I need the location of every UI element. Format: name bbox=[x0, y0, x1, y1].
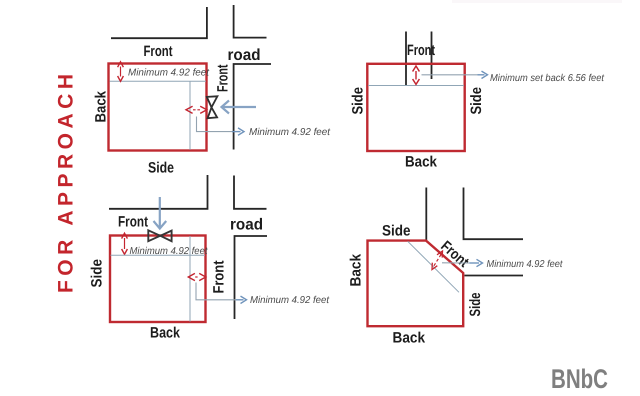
plot 1 front setback arrow bbox=[118, 62, 124, 82]
road edge left (d4) bbox=[425, 188, 427, 241]
gate symbol (d3, bow-tie on top boundary) bbox=[148, 230, 171, 241]
svg-text:Side: Side bbox=[468, 87, 485, 115]
plot 4 splay setback line bbox=[408, 241, 459, 292]
leader arrow blue (d1 side note) bbox=[232, 128, 244, 135]
approach arrow blue (d1) bbox=[222, 101, 257, 114]
plot 3 side setback line bbox=[189, 236, 191, 322]
svg-text:Minimum 4.92 feet: Minimum 4.92 feet bbox=[487, 259, 564, 270]
svg-text:Back: Back bbox=[93, 90, 110, 122]
svg-text:Minimum 4.92 feet: Minimum 4.92 feet bbox=[249, 127, 331, 138]
svg-text:road: road bbox=[228, 47, 261, 64]
road corner NE (d1) bbox=[234, 5, 267, 38]
leader line (d1 side note) bbox=[197, 117, 233, 132]
road corner NW (d3) bbox=[109, 175, 208, 209]
road corner SE (d1) bbox=[234, 64, 271, 150]
road corner SE (d3) bbox=[235, 236, 268, 319]
road corner NW (d1) bbox=[111, 7, 207, 38]
svg-text:Side: Side bbox=[467, 293, 484, 317]
svg-text:Back: Back bbox=[393, 330, 426, 347]
svg-text:FOR APPROACH: FOR APPROACH bbox=[55, 74, 78, 293]
plot 3 side setback arrow bbox=[188, 273, 206, 280]
plot 3 boundary bbox=[110, 236, 206, 323]
svg-text:road: road bbox=[230, 217, 263, 234]
plot 2 front setback line bbox=[368, 85, 464, 87]
plot 3 front setback arrow bbox=[122, 233, 128, 254]
leader arrow blue (d2 note) bbox=[478, 71, 488, 78]
leader line (d2 note) bbox=[422, 74, 478, 76]
leader line (d4 note) bbox=[442, 262, 470, 264]
svg-text:Minimum set back 6.56 feet: Minimum set back 6.56 feet bbox=[490, 73, 605, 84]
svg-text:Front: Front bbox=[407, 42, 435, 59]
svg-text:Minimum 4.92 feet: Minimum 4.92 feet bbox=[128, 68, 210, 79]
plot 4 splay setback arrow bbox=[432, 251, 443, 270]
gate symbol (d1, hourglass on right boundary) bbox=[207, 96, 218, 118]
road corner NE (d4) bbox=[464, 188, 524, 240]
svg-text:Minimum 4.92 feet: Minimum 4.92 feet bbox=[250, 295, 330, 306]
leader line (d3 side note) bbox=[196, 283, 236, 300]
road corner NE (d3) bbox=[234, 176, 267, 209]
svg-text:Back: Back bbox=[405, 154, 438, 171]
leader arrow blue (d4 note) bbox=[470, 259, 483, 266]
plot 1 front setback line bbox=[110, 80, 207, 82]
svg-text:Side: Side bbox=[89, 259, 106, 288]
svg-text:Side: Side bbox=[382, 223, 411, 240]
approach lane left line (d2) bbox=[405, 32, 407, 86]
plot 1 boundary bbox=[109, 64, 207, 151]
svg-text:Front: Front bbox=[215, 65, 232, 93]
road edge lower (d4) bbox=[465, 275, 524, 277]
plot 2 boundary bbox=[367, 64, 464, 151]
faint cropped watermark remnant top edge bbox=[452, 0, 622, 3]
svg-text:Side: Side bbox=[350, 87, 367, 115]
plot 1 side setback arrow bbox=[186, 106, 207, 113]
approach arrow blue (d3, downward) bbox=[154, 197, 167, 229]
svg-text:Back: Back bbox=[150, 325, 181, 342]
plot 2 setback arrow bbox=[413, 66, 420, 84]
plot 3 front setback line bbox=[111, 254, 206, 256]
svg-text:Front: Front bbox=[144, 43, 173, 60]
svg-text:BNbC: BNbC bbox=[551, 364, 608, 394]
svg-text:Side: Side bbox=[148, 160, 174, 177]
approach lane right line (d2) bbox=[431, 32, 433, 80]
leader arrow blue (d3 side note) bbox=[236, 296, 247, 303]
plot 1 side setback line bbox=[189, 81, 191, 150]
plot 4 boundary (corner plot with splay) bbox=[368, 241, 464, 327]
svg-text:Front: Front bbox=[118, 214, 148, 231]
svg-text:Back: Back bbox=[348, 253, 365, 286]
svg-text:Front: Front bbox=[211, 261, 228, 294]
